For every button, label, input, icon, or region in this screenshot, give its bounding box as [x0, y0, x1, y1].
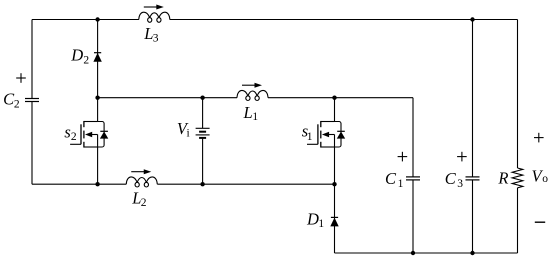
svg-text:i: i: [187, 128, 190, 140]
svg-text:D: D: [306, 210, 319, 229]
svg-text:1: 1: [307, 131, 313, 143]
svg-text:3: 3: [457, 178, 463, 190]
svg-text:C: C: [385, 169, 397, 188]
svg-text:L: L: [243, 103, 253, 122]
svg-text:R: R: [497, 169, 508, 188]
svg-text:o: o: [542, 173, 548, 185]
svg-text:s: s: [64, 122, 70, 141]
svg-text:2: 2: [83, 55, 89, 67]
svg-text:2: 2: [141, 197, 147, 209]
svg-text:2: 2: [71, 131, 77, 143]
svg-text:1: 1: [252, 111, 258, 123]
svg-text:1: 1: [318, 218, 324, 230]
svg-text:2: 2: [14, 99, 20, 111]
svg-text:C: C: [445, 169, 457, 188]
svg-text:D: D: [70, 46, 83, 65]
svg-text:3: 3: [153, 32, 159, 44]
svg-text:1: 1: [398, 178, 404, 190]
